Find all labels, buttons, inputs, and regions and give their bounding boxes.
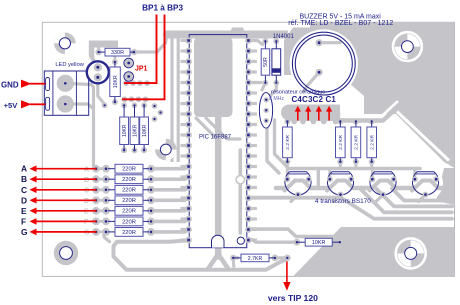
buzzer BZ1	[292, 32, 355, 95]
svg-text:E: E	[21, 206, 27, 216]
wire staircase trace 1	[392, 189, 452, 201]
svg-text:A: A	[84, 166, 89, 173]
transistor Q2 BS170	[327, 172, 353, 195]
node BP/JP pad cluster	[123, 80, 129, 86]
arrow segment G	[36, 231, 97, 233]
IC U1 notch	[212, 235, 225, 247]
svg-text:C: C	[84, 187, 89, 194]
wire 50R diode top stubs	[264, 36, 267, 41]
thermal via center-left	[155, 139, 177, 161]
svg-text:D: D	[84, 198, 89, 205]
resistor 220R row D	[96, 199, 106, 202]
svg-text:220R: 220R	[122, 219, 136, 225]
arrow +5V	[21, 100, 32, 108]
svg-text:4 transistors BS170: 4 transistors BS170	[315, 198, 371, 205]
resistor 220R row B	[96, 178, 106, 181]
svg-text:220R: 220R	[122, 177, 136, 183]
wire bus below transistors	[252, 198, 452, 219]
ceramic resonator X1	[259, 93, 272, 129]
resistor 10KR #4	[141, 147, 147, 153]
svg-text:10KR: 10KR	[142, 124, 148, 137]
svg-text:GND: GND	[1, 80, 19, 89]
mounting hole top-right	[393, 32, 422, 61]
svg-text:50R: 50R	[263, 57, 269, 67]
arrow vers TIP120	[286, 262, 288, 284]
wire bottom-left bus	[114, 240, 288, 270]
mounting hole bottom-left	[54, 241, 78, 265]
terminal block pads	[57, 75, 74, 92]
wire staircase trace 3	[360, 189, 452, 213]
svg-text:G: G	[84, 230, 90, 237]
svg-text:B: B	[21, 174, 27, 184]
svg-text:E: E	[84, 208, 89, 215]
resistor 2.2KR #3	[353, 119, 359, 125]
wire IC center vertical trace	[215, 112, 222, 257]
wire traces 220R array to IC	[154, 167, 185, 171]
LED D2 yellow	[87, 61, 109, 83]
transistor Q4 BS170	[412, 172, 438, 195]
resistor 220R row A	[96, 167, 106, 170]
wire 2.7KR right pads bar	[275, 256, 287, 259]
wire 10KR right trace	[343, 242, 363, 254]
wire staircase trace 2	[376, 189, 452, 207]
wire transistor Q2 traces	[327, 181, 353, 191]
IC U1 PIC16F887 outline	[189, 35, 247, 248]
svg-text:A: A	[21, 164, 27, 174]
svg-text:330R: 330R	[111, 50, 124, 56]
wire vertical traces left of IC	[170, 34, 173, 162]
wire red BP line 1	[124, 15, 157, 84]
arrow segment C	[36, 189, 97, 191]
resistor 220R row E	[96, 209, 106, 212]
wire transistor Q1 traces	[285, 181, 311, 191]
mounting hole bottom-right	[396, 238, 426, 268]
svg-text:2.7KR: 2.7KR	[248, 256, 263, 262]
svg-text:C: C	[21, 185, 27, 195]
copper pour top-right	[284, 22, 455, 168]
resistor 10KR #2	[121, 147, 127, 153]
wire horizontal bus above transistors	[290, 167, 420, 171]
resistor 330R	[95, 49, 101, 55]
svg-text:D: D	[21, 195, 27, 205]
arrow segment D	[36, 199, 97, 201]
resistor 2.2KR #1	[284, 119, 290, 125]
wire copper band under C1-C4	[289, 105, 340, 122]
wire from GND terminal pad	[65, 83, 93, 166]
mounting hole top-left	[54, 33, 76, 55]
wire white cutout around transistor Q4	[408, 166, 443, 201]
wire IC inner right trace	[239, 150, 243, 233]
svg-text:LED yellow: LED yellow	[55, 62, 84, 68]
svg-text:220R: 220R	[122, 209, 136, 215]
wire 10KR top stub	[114, 50, 117, 62]
diode D1 1N4001	[273, 38, 279, 44]
arrow segment E	[36, 210, 97, 212]
svg-text:réf. TME: LD - BZEL - B07 - 12: réf. TME: LD - BZEL - B07 - 1212	[288, 20, 393, 27]
svg-text:PIC 16F887: PIC 16F887	[199, 134, 232, 140]
arrow segment F	[36, 220, 97, 222]
copper pour collar right of transistor Q4	[436, 168, 455, 205]
svg-text:2.2 KR: 2.2 KR	[285, 134, 291, 149]
wire buzzer white moat	[290, 29, 358, 97]
resistor 220R row G	[96, 230, 106, 233]
resistor 220R row F	[96, 220, 106, 223]
svg-text:F: F	[21, 216, 26, 226]
terminal block screw slots	[46, 78, 50, 91]
svg-text:220R: 220R	[122, 198, 136, 204]
wire IC top pad riser	[177, 36, 180, 41]
wire transistor Q4 traces	[412, 181, 438, 191]
wire IC inner diagonal traces	[196, 118, 217, 139]
IC U1 pin1 circle	[237, 237, 244, 244]
svg-text:2.2 KR: 2.2 KR	[338, 134, 344, 149]
svg-text:220R: 220R	[122, 167, 136, 173]
wire IC inner copper pour	[194, 37, 233, 117]
wire transistor Q3 traces	[370, 181, 396, 191]
svg-text:10KR: 10KR	[122, 124, 128, 137]
svg-text:JP1: JP1	[135, 66, 148, 73]
wire vertical trace right of IC b	[275, 120, 289, 169]
svg-text:vers TIP 120: vers TIP 120	[268, 293, 318, 303]
svg-text:2.2 KR: 2.2 KR	[370, 134, 376, 149]
svg-text:10KR: 10KR	[132, 124, 138, 137]
wire stub between Q1 Q2	[317, 170, 320, 186]
copper pour bottom-right	[293, 227, 455, 276]
via on IC inner trace	[236, 175, 244, 183]
wire 2.2KR cluster stubs	[339, 163, 342, 169]
svg-text:1N4001: 1N4001	[273, 34, 295, 40]
wire IC bottom-right trace	[252, 229, 343, 245]
svg-text:C4C3C2 C1: C4C3C2 C1	[292, 95, 337, 104]
resistor 10KR #3	[132, 147, 138, 153]
svg-text:10KR: 10KR	[312, 240, 326, 246]
transistor Q3 BS170	[370, 172, 396, 195]
wire red BP line 2	[122, 15, 165, 100]
resistor 2.2KR #4	[369, 119, 375, 125]
jumper JP1	[125, 59, 133, 67]
wire IC pin lead stubs	[181, 39, 189, 42]
wire diode bottom stubs	[262, 83, 265, 90]
terminal block J1 outline	[44, 71, 88, 115]
arrow GND	[21, 80, 32, 88]
svg-text:+5V: +5V	[4, 101, 19, 110]
arrows to C1-C4	[297, 111, 299, 121]
resistor 10KR horizontal	[294, 239, 301, 246]
transistor Q1 BS170	[285, 172, 311, 195]
resistor 10KR vertical	[112, 59, 118, 65]
svg-text:2.2 KR: 2.2 KR	[354, 134, 360, 149]
capacitor pads C1-C4	[293, 113, 296, 120]
svg-text:BP1 à BP3: BP1 à BP3	[142, 4, 183, 13]
wire bus stub from G row	[104, 232, 110, 242]
arrow segment B	[36, 178, 97, 180]
wire white channel in pour	[397, 112, 449, 161]
PCB board outline	[42, 22, 454, 276]
svg-text:F: F	[84, 219, 89, 226]
IC U1 pads	[185, 37, 192, 44]
wire top-center copper band	[167, 31, 288, 39]
resistor 220R row C	[96, 188, 106, 191]
wire IC pin to 10KR	[252, 240, 294, 243]
resistor 2.2KR #2	[337, 119, 343, 125]
arrow segment A	[36, 168, 97, 170]
wire vertical trace above LED	[89, 41, 118, 48]
wire 2.7KR left trace	[233, 256, 238, 259]
svg-text:G: G	[21, 227, 28, 237]
wire 330R left stub	[97, 46, 100, 52]
wire from +5V terminal pad	[65, 104, 93, 109]
svg-text:B: B	[84, 177, 89, 184]
svg-text:8 MHz: 8 MHz	[269, 96, 284, 102]
wire 330R to copper band	[134, 36, 167, 52]
wire LED cathode trace	[98, 77, 104, 106]
svg-text:220R: 220R	[122, 230, 136, 236]
resistor 2.7KR	[230, 255, 236, 261]
wire 2.7KR pad stub	[232, 258, 236, 267]
resistor 50R	[263, 38, 269, 44]
wire vertical trace right of IC a	[267, 128, 279, 173]
svg-text:10KR: 10KR	[113, 75, 119, 88]
svg-text:220R: 220R	[122, 188, 136, 194]
wire trace through 2.2KR cluster pads	[352, 101, 398, 116]
wire transistor bus	[276, 186, 286, 191]
